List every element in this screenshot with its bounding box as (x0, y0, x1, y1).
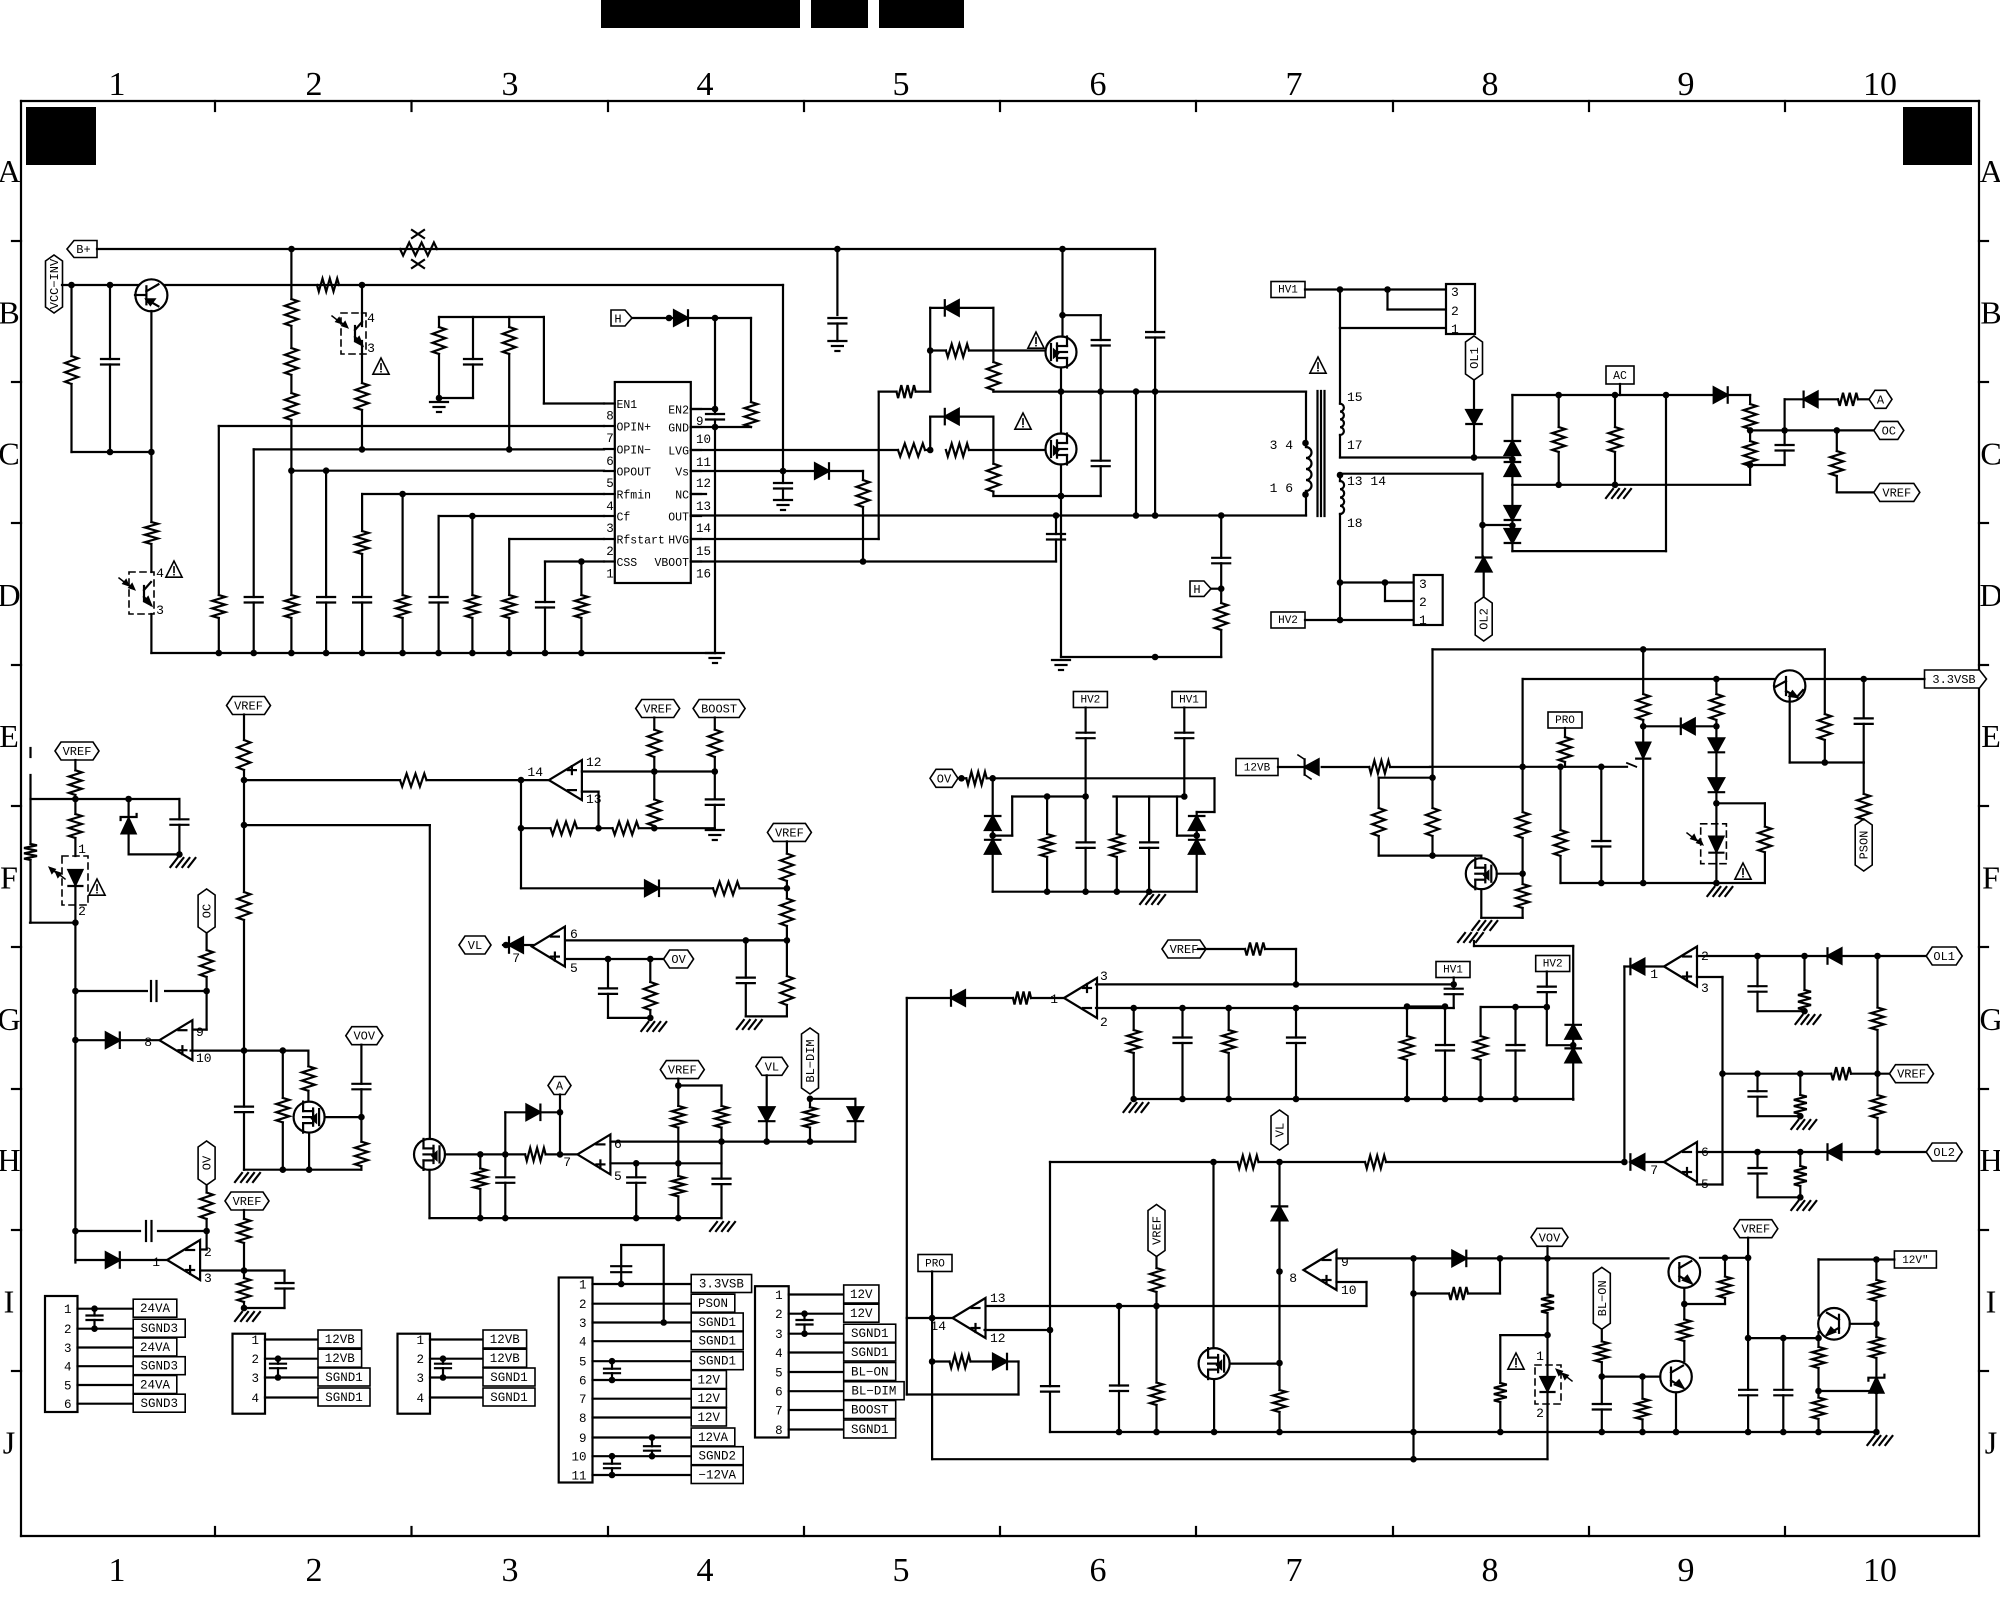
diode chain b (1709, 752, 1724, 803)
wire sec2 bottom (1339, 514, 1341, 583)
transformer T1 sec2 (1337, 472, 1387, 531)
opamp U-H (1/2/3) (152, 1240, 212, 1286)
wire pin3 row mid (1096, 981, 1457, 988)
wire pin12 row (985, 1327, 1054, 1334)
wire OPIN+ row (219, 425, 604, 427)
resistor hv1 mon (1401, 1007, 1414, 1100)
wire ground bus D (151, 650, 715, 657)
svg-text:9: 9 (1678, 1552, 1695, 1589)
wire zd R top (1197, 778, 1215, 812)
wire NC stub (691, 493, 706, 495)
svg-text:HVG: HVG (668, 535, 689, 548)
opamp U-PRO (14/13/12) (930, 1291, 1005, 1346)
resistor col 1560 (1554, 767, 1567, 883)
wire J row (932, 1456, 1547, 1463)
wire HV1 row1 (1340, 290, 1446, 329)
svg-text:BL−ON: BL−ON (851, 1366, 889, 1380)
capacitor col OPOUT b (317, 471, 335, 653)
wire LVG row (691, 447, 934, 454)
svg-text:3: 3 (1451, 285, 1459, 300)
svg-text:OV: OV (937, 772, 952, 786)
wire A pin6 row (611, 1138, 856, 1145)
warning triangle M1 (1028, 332, 1044, 348)
net label OV (mid) (930, 769, 958, 787)
diode VL A (759, 1107, 774, 1141)
svg-text:BL−DIM: BL−DIM (851, 1385, 896, 1399)
svg-text:1: 1 (606, 568, 614, 582)
svg-text:2: 2 (204, 1245, 212, 1260)
wire 679 corner drop (1521, 679, 1523, 767)
resistor A net (1838, 393, 1858, 406)
resistor ol1 (1798, 956, 1811, 1011)
wire drain row (1379, 852, 1482, 859)
wire pin12 row (582, 768, 718, 775)
resistor PSON (1857, 763, 1870, 820)
capacitor OUT-VBOOT (1047, 516, 1065, 562)
svg-text:VREF: VREF (1897, 1068, 1926, 1082)
svg-text:2: 2 (78, 904, 86, 919)
svg-text:3: 3 (1701, 981, 1709, 996)
wire QI1 collector row (1700, 1255, 1751, 1262)
ground vrefol (1791, 1120, 1816, 1129)
resistor VCC filter (65, 285, 78, 452)
net label VCC-INV (46, 255, 63, 313)
capacitor QA (496, 1154, 514, 1218)
wire Rfmin row (362, 491, 604, 498)
wire QA gate row b (546, 1151, 578, 1158)
wire F ov bottom (608, 1015, 654, 1022)
wire OC row (1747, 427, 1874, 434)
svg-text:8: 8 (579, 1412, 587, 1426)
resistor OC-VREF (1830, 430, 1843, 492)
capacitor F (737, 940, 755, 1016)
svg-text:NC: NC (675, 490, 689, 503)
wire rail to opto1 (361, 285, 363, 313)
svg-text:3: 3 (204, 1271, 212, 1286)
svg-text:3: 3 (156, 603, 164, 618)
wire pin3 row (200, 1267, 284, 1274)
svg-text:7: 7 (563, 1155, 571, 1170)
svg-text:H: H (1979, 1142, 2000, 1178)
resistor vrefol (1794, 1074, 1807, 1117)
wire bldim node (807, 1096, 814, 1108)
resistor OV series (966, 772, 986, 785)
svg-text:1: 1 (64, 1303, 72, 1317)
wire sense col (1154, 514, 1156, 516)
optocoupler opto3 LED (50, 856, 88, 905)
wire HV1 mid col (1183, 708, 1185, 733)
wire opto2 to bus (150, 614, 152, 653)
diode Vs (815, 463, 829, 478)
resistor left vref (69, 770, 82, 799)
zener E (121, 799, 137, 854)
wire ol2 diode row (1644, 1161, 1664, 1163)
wire VL wire (503, 942, 510, 949)
svg-text:5: 5 (579, 1356, 587, 1370)
wire EN1 bottom (436, 395, 473, 402)
svg-text:10: 10 (196, 1051, 212, 1066)
ground div (1140, 895, 1165, 904)
resistor G drain (302, 1066, 315, 1101)
svg-text:OPIN+: OPIN+ (617, 422, 652, 435)
svg-text:OL1: OL1 (1468, 347, 1482, 369)
wire B+ rail (97, 246, 1155, 253)
resistor row780 (400, 774, 427, 787)
wire OPOUT row (288, 467, 604, 474)
ground opto4 (1707, 887, 1732, 896)
wire cap row H (75, 1228, 210, 1235)
svg-text:1: 1 (1536, 1349, 1544, 1364)
svg-text:12: 12 (586, 755, 602, 770)
wire VL row (1050, 1159, 1238, 1166)
svg-text:SGND1: SGND1 (325, 1371, 363, 1385)
resistor chain R1 (285, 249, 298, 326)
net label OC (right) (1874, 421, 1904, 439)
wire pin9 row b (1466, 1255, 1547, 1262)
wire vref A node (675, 1079, 722, 1089)
svg-text:VREF: VREF (233, 1195, 262, 1209)
svg-text:4: 4 (156, 566, 164, 581)
wire left col long (72, 919, 79, 1262)
resistor 12vpp mid (1870, 1324, 1883, 1378)
capacitor Vs gnd (774, 471, 792, 500)
label PRO (bottom) (918, 1255, 952, 1272)
capacitor ol2 (1749, 1152, 1767, 1197)
wire chain node2 (1713, 800, 1720, 807)
wire pro col (929, 1272, 936, 1460)
resistor QA gate (525, 1148, 546, 1161)
IC U1 pins (604, 399, 711, 582)
wire sense drop (1135, 392, 1137, 516)
wire sec2 out row (1340, 473, 1483, 475)
diode stack D2 (1505, 462, 1520, 485)
wire HVG to gate net (879, 391, 931, 393)
label HV1 (low) (1436, 962, 1470, 978)
net label H (IC) (611, 310, 632, 327)
resistor 12vpp top (1870, 1259, 1883, 1324)
wire E top row (1433, 646, 1825, 653)
wire sec2 top (1339, 475, 1341, 481)
svg-text:7: 7 (1286, 66, 1303, 103)
wire 12VB row (1278, 766, 1369, 768)
net label PSON (1855, 819, 1872, 871)
resistor shunt b (1609, 395, 1622, 485)
wire zener row (1819, 1390, 1877, 1392)
resistor vref A right (715, 1086, 728, 1142)
ground mid row (1124, 1103, 1149, 1112)
svg-text:LVG: LVG (668, 446, 689, 459)
wire zd L node (989, 832, 996, 839)
svg-text:BL−ON: BL−ON (1596, 1280, 1610, 1316)
wire mini row L (1012, 793, 1089, 800)
svg-text:12V: 12V (850, 1288, 873, 1302)
wire mid rail (1512, 482, 1750, 489)
resistor div L (1041, 797, 1054, 892)
resistor chain R2 (285, 326, 298, 375)
wire gate row M1 (930, 349, 1045, 351)
capacitor EN1 (464, 317, 482, 398)
svg-text:7: 7 (579, 1393, 587, 1407)
svg-text:3: 3 (579, 1317, 587, 1331)
svg-text:HV2: HV2 (1278, 615, 1298, 627)
svg-text:12VB: 12VB (1244, 763, 1271, 775)
svg-text:A: A (0, 153, 21, 189)
wire ol1 label row (1842, 953, 1927, 960)
diode OL2 (1476, 558, 1491, 572)
wire gnd row HB (1061, 654, 1221, 661)
diode chain a (1709, 738, 1724, 752)
diode zd L1 (985, 778, 1000, 833)
zener 12VB (1298, 755, 1319, 779)
transistor Q vcc (135, 279, 167, 311)
resistor H sense (1215, 589, 1228, 657)
connector CN1 (45, 1296, 185, 1412)
wire Vs row (691, 468, 815, 475)
svg-text:1: 1 (775, 1289, 783, 1303)
wire G bottom row (244, 1166, 361, 1173)
fusible resistor on B+ (400, 230, 437, 268)
wire A diode jog (504, 1112, 506, 1154)
resistor div b (1426, 778, 1439, 856)
wire E top drop left (1431, 649, 1433, 777)
diode G in (106, 1033, 120, 1048)
wire pin13 jog (582, 792, 599, 829)
net label VREF (mid) (1162, 940, 1206, 958)
wire QG source (308, 1133, 310, 1170)
wire mini row R (1113, 793, 1187, 800)
svg-text:1: 1 (416, 1334, 424, 1348)
svg-text:24VA: 24VA (140, 1302, 171, 1316)
svg-text:OV: OV (671, 953, 686, 967)
diode OL1 out (1828, 948, 1842, 963)
resistor pin9 parallel (1449, 1287, 1468, 1300)
wire QG gate (325, 1114, 365, 1121)
svg-text:SGND1: SGND1 (851, 1327, 889, 1341)
redacted black boxes (26, 0, 1972, 165)
opamp U-mid (1/3/2) (1050, 969, 1108, 1030)
svg-text:14: 14 (696, 522, 711, 536)
ground H (235, 1312, 260, 1321)
wire 12VB row2 (1390, 766, 1430, 768)
svg-text:24VA: 24VA (140, 1341, 171, 1355)
wire EN2 row (691, 406, 719, 413)
connector CN2 (233, 1330, 371, 1414)
resistor H vref top (238, 1210, 251, 1271)
connector CN-HV2 (1414, 575, 1443, 628)
svg-text:13: 13 (696, 500, 711, 514)
wire sec1 bottom (1339, 435, 1341, 458)
wire HV1 row2 (1388, 290, 1447, 310)
capacitor H right (276, 1271, 294, 1309)
capacitor OC filter (1776, 430, 1794, 465)
diode pin9 (1452, 1251, 1466, 1266)
IC U1 body (615, 382, 691, 583)
capacitor VOV (352, 1084, 370, 1117)
connector CN4 (559, 1275, 752, 1484)
svg-text:8: 8 (1289, 1271, 1297, 1286)
wire VL row b (1259, 1159, 1366, 1166)
diode OL2 in (1630, 1154, 1644, 1169)
capacitor mid c4 (1287, 1008, 1305, 1099)
wire hv2 L link (1547, 1007, 1577, 1048)
capacitor vref I b (1774, 1338, 1792, 1432)
capacitor F ov (599, 959, 617, 1018)
wire ol2 rc bottom (1758, 1194, 1804, 1201)
wire pro col mid (1049, 1162, 1051, 1432)
diode OL2 out (1828, 1144, 1842, 1159)
wire gate net left rail M2 (929, 417, 931, 450)
transistor Q 3.3VSB (1774, 670, 1805, 701)
wire Vs res to VBOOT (860, 507, 867, 565)
wire Q emitter (150, 311, 152, 452)
wire zener row (75, 796, 179, 803)
resistor opto3 top (69, 799, 82, 856)
svg-text:G: G (1979, 1001, 2000, 1037)
resistor hv2 mon (1474, 1007, 1487, 1099)
resistor EN1 b (503, 317, 516, 449)
ground ol2 (1791, 1201, 1816, 1210)
net label BOOST (693, 700, 745, 718)
wire left stub G (30, 922, 75, 924)
MOSFET Q1 high-side (1046, 337, 1077, 368)
resistor ol hyst bottom (1871, 1074, 1884, 1154)
resistor 12VB (1369, 761, 1390, 774)
svg-text:2: 2 (775, 1308, 783, 1322)
ground F (737, 1020, 762, 1029)
resistor chain R4 to bus (285, 471, 298, 653)
resistor VL col (1273, 1363, 1286, 1432)
diode to SCR (1681, 719, 1695, 734)
opamp U-F (7/6/5) (512, 927, 578, 976)
net label VREF (E mid) (636, 700, 680, 718)
resistor QI1-QI2 (1678, 1304, 1691, 1361)
svg-text:EN2: EN2 (668, 405, 689, 418)
wire Cf row (439, 513, 604, 520)
wire 3.3VSB label stub (1864, 678, 1925, 680)
svg-text:VREF: VREF (1882, 486, 1911, 500)
svg-text:F: F (1982, 860, 2000, 896)
wire drain node (1379, 774, 1436, 781)
diode E fb (645, 881, 659, 896)
svg-text:HV1: HV1 (1179, 695, 1199, 707)
capacitor EN2 (706, 318, 724, 427)
opamp U-OL2 (7/6/5) (1650, 1142, 1709, 1192)
warning triangle opto4 (1735, 863, 1751, 879)
svg-text:BOOST: BOOST (701, 703, 737, 717)
wire div bottom row (993, 888, 1197, 895)
resistor vref A left (672, 1086, 685, 1164)
wire pin5 row (566, 956, 664, 963)
svg-text:SGND1: SGND1 (490, 1371, 528, 1385)
diode H in (106, 1252, 120, 1267)
capacitor mid c2 (1174, 1008, 1192, 1099)
wire Rfstart row (509, 538, 604, 540)
svg-text:A: A (556, 1080, 564, 1094)
net label VL (A) (756, 1057, 788, 1075)
resistor gate M2 (946, 444, 969, 457)
svg-text:12V″: 12V″ (1902, 1255, 1928, 1267)
wire pin13 row (985, 1303, 1367, 1310)
wire vref mid corner (1265, 949, 1296, 984)
svg-text:OC: OC (201, 904, 215, 918)
resistor div R (1110, 797, 1123, 892)
wire Q1 snубber top (1059, 312, 1101, 319)
wire primary return (1305, 495, 1307, 516)
wire bottom row mid (1130, 1096, 1573, 1103)
svg-text:10: 10 (696, 433, 711, 447)
wire ol2 pin6 row (1697, 1149, 1881, 1156)
svg-text:VREF: VREF (775, 826, 804, 840)
capacitor H sense (1212, 516, 1230, 589)
resistor F vref c (780, 940, 793, 1016)
svg-text:VREF: VREF (234, 700, 263, 714)
wire pin2 jog (198, 1231, 207, 1250)
resistor QI3 e top (1812, 1332, 1825, 1394)
wire QA drain col (428, 1138, 430, 1140)
diode gate M2 (945, 409, 959, 424)
capacitor vrefol (1749, 1074, 1767, 1117)
wire A diode row (505, 1109, 563, 1116)
wire A pin5 row (611, 1160, 722, 1167)
svg-text:12VB: 12VB (325, 1352, 356, 1366)
wire vref ol stub (1851, 1070, 1890, 1077)
resistor col CSS b (575, 562, 588, 654)
label AC (1606, 366, 1634, 384)
resistor VL b (1365, 1156, 1386, 1169)
ground bus symbol (706, 653, 724, 663)
transistor Q-I2 (1660, 1361, 1692, 1393)
label PRO (top) (1548, 712, 1582, 728)
resistor OC (200, 933, 213, 991)
wire hv2 node row (1481, 1004, 1551, 1011)
wire HV2 mid col (1084, 708, 1086, 733)
wire cap row G (75, 988, 210, 995)
wire ov stub (958, 775, 966, 782)
wire M2 source row (993, 493, 1100, 500)
diode stack D4 (1505, 522, 1520, 551)
resistor shunt a (1552, 395, 1565, 485)
svg-text:15: 15 (1347, 390, 1363, 405)
wire opto1 pin4 (361, 313, 363, 326)
net label VREF (A) (660, 1061, 704, 1079)
wire VL diode out (523, 944, 533, 946)
wire ol2 pin5 (1697, 1183, 1723, 1185)
svg-text:1: 1 (109, 66, 126, 103)
wire diode H row (75, 1259, 167, 1261)
resistor HVG series (897, 385, 916, 398)
label HV2 (mid) (1073, 692, 1107, 708)
wire VOV col (360, 1045, 362, 1084)
MOSFET Q2 low-side (1046, 434, 1077, 465)
wire Vs diode out (829, 471, 863, 480)
svg-text:2: 2 (1419, 595, 1427, 610)
capacitor HV2 top (1077, 733, 1095, 797)
svg-text:2: 2 (306, 66, 323, 103)
net label VL (F) (459, 936, 491, 954)
svg-text:4: 4 (697, 1552, 714, 1589)
capacitor boost (706, 772, 724, 829)
svg-text:SGND1: SGND1 (698, 1335, 736, 1349)
net label BL-ON (1593, 1267, 1610, 1329)
svg-text:10: 10 (571, 1451, 586, 1465)
net label A (H) (548, 1077, 571, 1095)
ground zener (170, 858, 195, 867)
svg-text:12: 12 (990, 1331, 1006, 1346)
resistor col OPIN+ (212, 426, 225, 653)
wire ol1 pin2 row (1697, 953, 1828, 960)
svg-text:24VA: 24VA (140, 1379, 171, 1393)
wire gate right rail M2 (992, 417, 994, 450)
